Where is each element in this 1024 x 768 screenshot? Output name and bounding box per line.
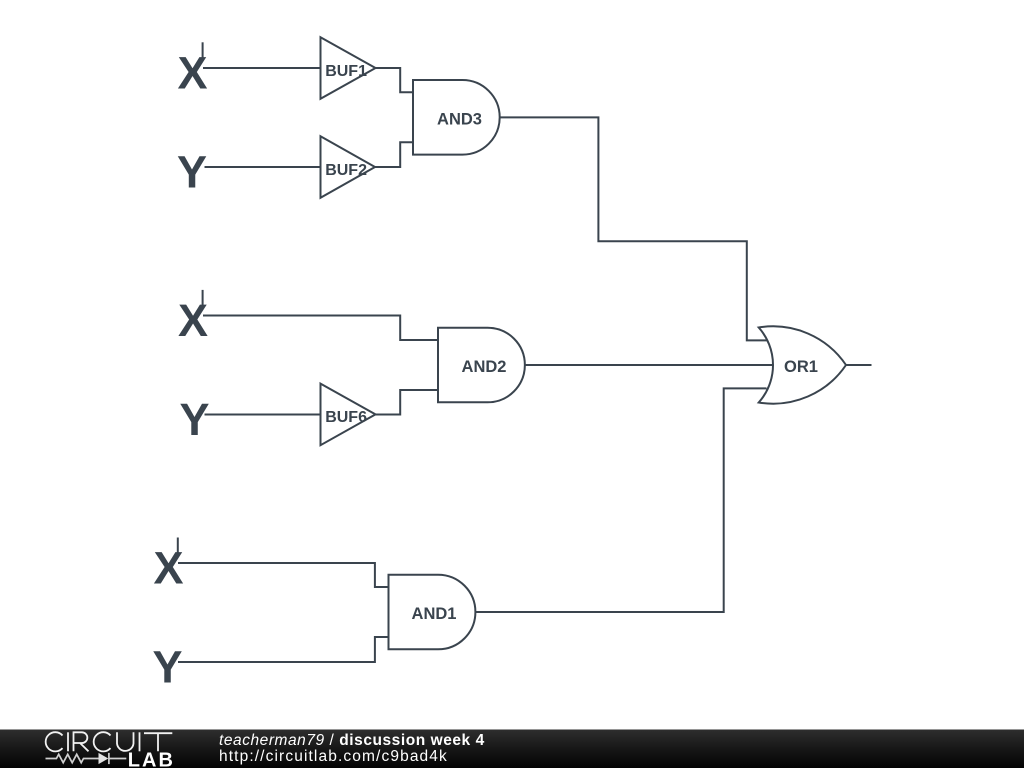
svg-text:BUF6: BUF6 — [325, 409, 367, 426]
svg-text:http://circuitlab.com/c9bad4k: http://circuitlab.com/c9bad4k — [219, 748, 448, 765]
svg-text:OR1: OR1 — [784, 358, 818, 376]
svg-text:X: X — [178, 295, 208, 346]
svg-text:LAB: LAB — [128, 749, 175, 768]
svg-text:Y: Y — [153, 641, 183, 692]
svg-text:BUF1: BUF1 — [325, 63, 367, 80]
svg-text:X: X — [154, 542, 184, 593]
svg-text:BUF2: BUF2 — [325, 162, 367, 179]
svg-text:AND2: AND2 — [462, 358, 507, 376]
svg-text:X: X — [178, 47, 208, 98]
svg-text:AND3: AND3 — [437, 110, 482, 128]
svg-text:Y: Y — [180, 394, 210, 445]
svg-text:Y: Y — [177, 146, 207, 197]
svg-text:teacherman79 / discussion week: teacherman79 / discussion week 4 — [219, 732, 485, 749]
svg-text:AND1: AND1 — [412, 605, 457, 623]
